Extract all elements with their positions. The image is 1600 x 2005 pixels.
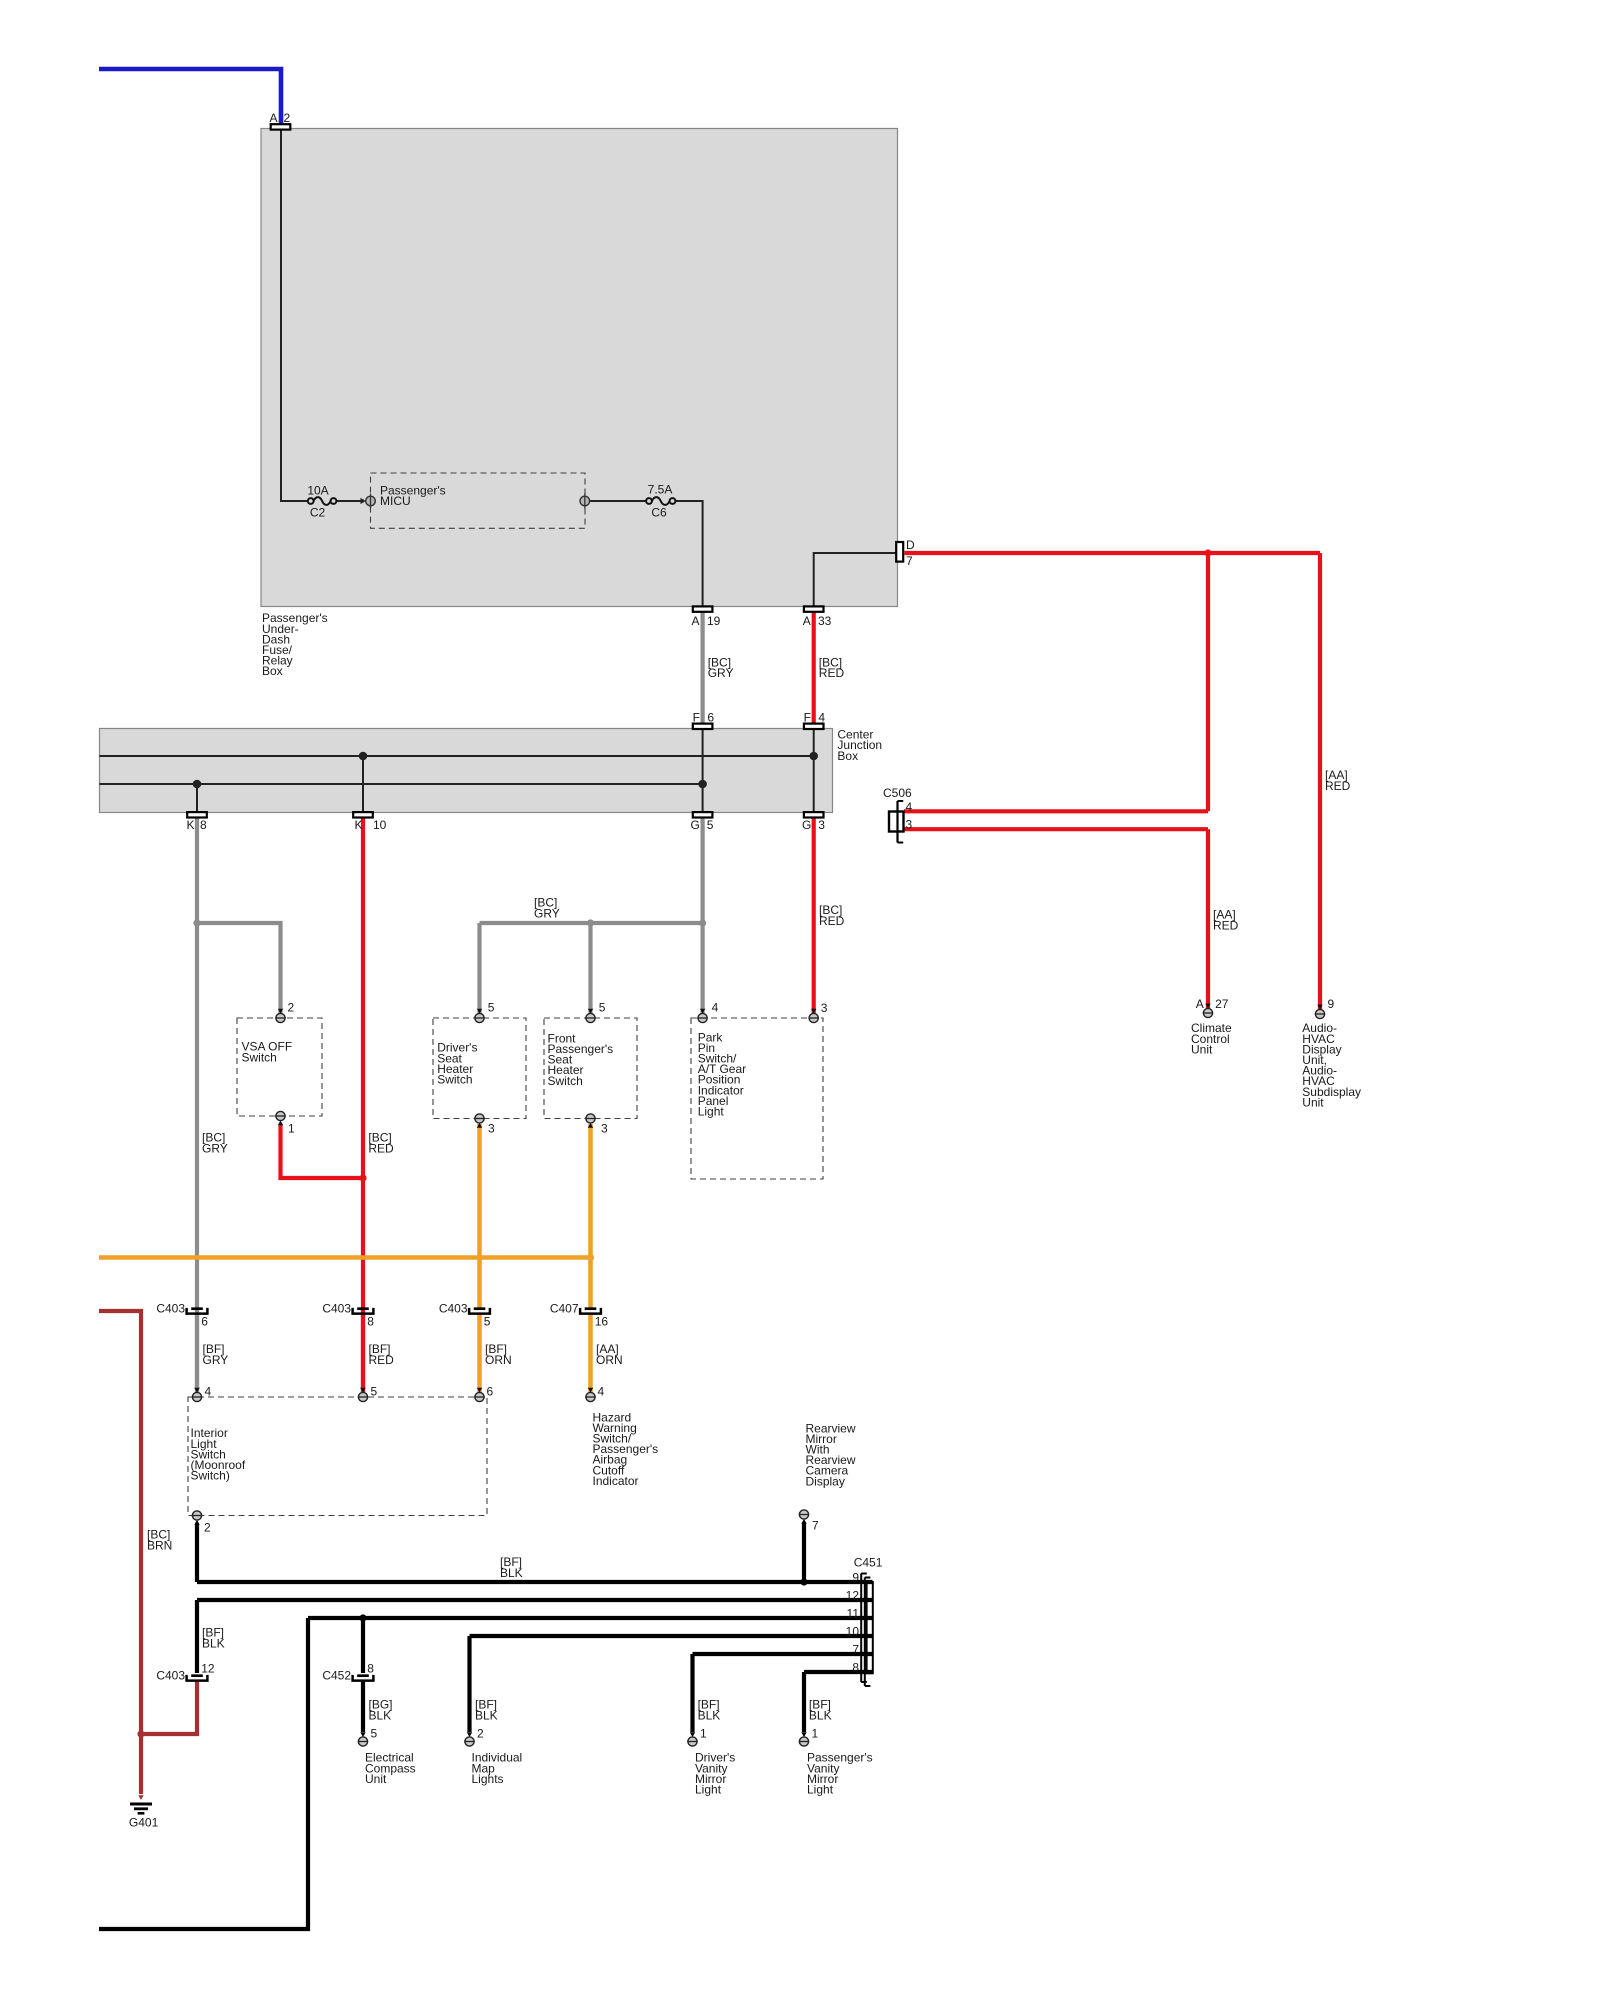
svg-text:[AA]RED: [AA]RED [1325, 768, 1351, 793]
svg-text:C2: C2 [310, 506, 326, 520]
svg-text:A: A [1196, 997, 1204, 1011]
svg-text:8: 8 [367, 1315, 374, 1329]
svg-text:A: A [803, 614, 811, 628]
svg-text:5: 5 [371, 1385, 378, 1399]
svg-text:[BC]RED: [BC]RED [819, 903, 845, 928]
svg-text:[BF]RED: [BF]RED [369, 1342, 395, 1367]
svg-text:12: 12 [846, 1589, 860, 1603]
svg-text:D: D [906, 538, 915, 552]
svg-text:C451: C451 [854, 1555, 883, 1569]
svg-text:G401: G401 [129, 1816, 159, 1830]
svg-text:K: K [354, 818, 362, 832]
svg-text:A: A [269, 111, 277, 125]
svg-text:C6: C6 [651, 506, 667, 520]
svg-text:1: 1 [812, 1727, 819, 1741]
svg-text:C407: C407 [550, 1302, 579, 1316]
svg-text:[BF]GRY: [BF]GRY [203, 1342, 229, 1367]
svg-text:9: 9 [1328, 997, 1335, 1011]
svg-text:3: 3 [821, 1001, 828, 1015]
svg-text:[BF]BLK: [BF]BLK [202, 1626, 225, 1651]
svg-text:3: 3 [906, 818, 913, 832]
svg-text:16: 16 [595, 1315, 609, 1329]
svg-text:5: 5 [488, 1001, 495, 1015]
svg-text:8: 8 [200, 818, 207, 832]
svg-text:2: 2 [477, 1727, 484, 1741]
svg-text:A: A [691, 614, 699, 628]
svg-text:7: 7 [852, 1643, 859, 1657]
svg-text:3: 3 [488, 1122, 495, 1136]
svg-text:[AA]RED: [AA]RED [1213, 908, 1239, 933]
svg-text:6: 6 [487, 1385, 494, 1399]
svg-text:7.5A: 7.5A [648, 483, 673, 497]
svg-text:6: 6 [201, 1315, 208, 1329]
svg-text:19: 19 [707, 614, 721, 628]
svg-text:1: 1 [700, 1727, 707, 1741]
svg-text:[BG]BLK: [BG]BLK [369, 1698, 393, 1723]
svg-text:3: 3 [601, 1122, 608, 1136]
svg-text:2: 2 [288, 1001, 295, 1015]
svg-text:7: 7 [906, 554, 913, 568]
svg-text:[BF]BLK: [BF]BLK [500, 1555, 523, 1580]
svg-text:G: G [691, 818, 700, 832]
svg-text:7: 7 [812, 1519, 819, 1533]
svg-text:10: 10 [373, 818, 387, 832]
svg-text:2: 2 [204, 1521, 211, 1535]
svg-text:F: F [804, 711, 811, 725]
svg-text:[BF]BLK: [BF]BLK [698, 1698, 721, 1723]
svg-text:5: 5 [599, 1001, 606, 1015]
svg-text:8: 8 [852, 1661, 859, 1675]
svg-text:Driver'sSeatHeaterSwitch: Driver'sSeatHeaterSwitch [437, 1041, 477, 1087]
svg-text:6: 6 [707, 711, 714, 725]
svg-text:10: 10 [846, 1625, 860, 1639]
svg-text:[BF]BLK: [BF]BLK [809, 1698, 832, 1723]
svg-text:2: 2 [284, 111, 291, 125]
svg-text:1: 1 [288, 1122, 295, 1136]
svg-text:C403: C403 [322, 1302, 351, 1316]
svg-text:[BC]RED: [BC]RED [368, 1131, 394, 1156]
svg-text:[BC]GRY: [BC]GRY [202, 1131, 228, 1156]
svg-text:5: 5 [484, 1315, 491, 1329]
svg-text:C403: C403 [439, 1302, 468, 1316]
svg-text:K: K [186, 818, 194, 832]
svg-text:C452: C452 [322, 1669, 351, 1683]
svg-text:4: 4 [818, 711, 825, 725]
svg-text:[BC]GRY: [BC]GRY [708, 656, 734, 681]
svg-text:4: 4 [712, 1001, 719, 1015]
svg-text:27: 27 [1215, 997, 1229, 1011]
svg-text:[BC]RED: [BC]RED [819, 656, 845, 681]
svg-text:[AA]ORN: [AA]ORN [596, 1342, 623, 1367]
svg-text:33: 33 [818, 614, 832, 628]
svg-text:5: 5 [707, 818, 714, 832]
svg-text:10A: 10A [307, 484, 328, 498]
svg-text:C403: C403 [156, 1669, 185, 1683]
svg-text:8: 8 [367, 1662, 374, 1676]
svg-text:4: 4 [598, 1385, 605, 1399]
svg-text:9: 9 [852, 1571, 859, 1585]
svg-text:3: 3 [818, 818, 825, 832]
svg-text:G: G [802, 818, 811, 832]
svg-text:11: 11 [847, 1607, 860, 1621]
svg-text:12: 12 [201, 1662, 215, 1676]
svg-text:[BC]BRN: [BC]BRN [147, 1528, 172, 1553]
svg-text:C403: C403 [156, 1302, 185, 1316]
svg-text:4: 4 [205, 1385, 212, 1399]
svg-text:4: 4 [906, 800, 913, 814]
svg-text:C506: C506 [883, 786, 912, 800]
svg-text:[BC]GRY: [BC]GRY [534, 896, 560, 921]
svg-text:5: 5 [371, 1727, 378, 1741]
svg-text:[BF]BLK: [BF]BLK [475, 1698, 498, 1723]
svg-text:F: F [693, 711, 700, 725]
